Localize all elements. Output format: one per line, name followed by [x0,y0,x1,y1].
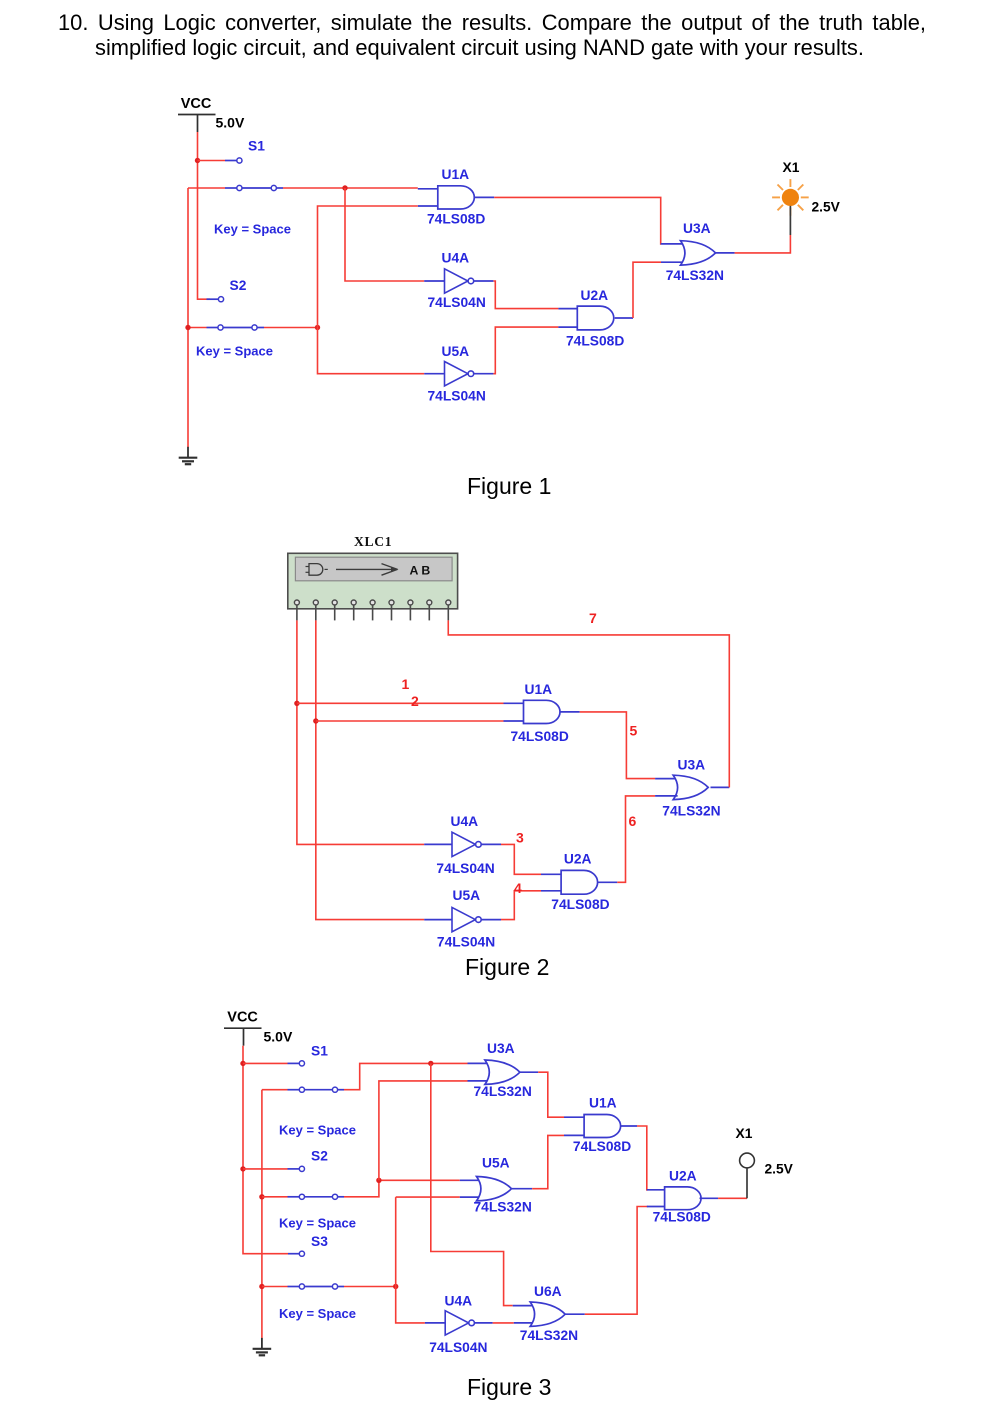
svg-text:2.5V: 2.5V [765,1162,794,1177]
svg-text:Key = Space: Key = Space [279,1306,356,1321]
op U2A AND gate body (figure 3) [665,1187,701,1210]
junction S2 branch (figure 3) [376,1178,381,1183]
svg-text:U1A: U1A [589,1096,617,1111]
svg-text:74LS32N: 74LS32N [474,1200,532,1215]
ground symbol (figure 3) [261,1338,263,1349]
pin U3A input B lead (figure 2) [655,795,678,797]
pin S2 left row lead [207,327,218,329]
ground symbol (figure 1) [187,447,189,458]
svg-text:74LS08D: 74LS08D [511,729,569,744]
pin U2A output [615,317,633,319]
wire U5A output to U1A input B (figure 3) [532,1135,564,1188]
svg-text:Key = Space: Key = Space [279,1216,356,1231]
switch S1 left terminal (figure 3) [299,1087,304,1092]
switch S3 right terminal (figure 3) [332,1284,337,1289]
svg-text:S2: S2 [230,278,247,293]
wire VCC to S1 upper throw (figure 3) [243,1062,288,1064]
pin S1 upper throw lead [225,160,237,162]
wire U5A output to U2A input B [493,327,558,374]
op U3A OR gate body (figure 3) [485,1060,520,1084]
wire S2 to U1A/U5A node [264,327,318,329]
pin U3A output (figure 3) [520,1071,538,1073]
wire S1 branch down to U4A [345,188,424,281]
svg-text:U3A: U3A [683,221,711,236]
svg-text:74LS04N: 74LS04N [436,861,494,876]
op U1A AND gate body (figure 2) [524,700,561,723]
wire ground rail to S3 row (figure 3) [262,1286,288,1288]
svg-text:U2A: U2A [669,1169,697,1184]
op U2A AND gate body [577,306,613,330]
svg-text:5.0V: 5.0V [216,115,245,131]
wire net 3 U4A output to U2A input A [501,844,541,874]
svg-text:74LS08D: 74LS08D [551,897,609,912]
svg-text:U5A: U5A [482,1156,510,1171]
switch S3 upper throw terminal (figure 3) [299,1251,304,1256]
svg-text:74LS08D: 74LS08D [427,212,485,227]
pin U1A input A (figure 2) [504,702,524,704]
pin U5A output (figure 3) [512,1188,533,1190]
junction node S1 branch [342,185,347,190]
probe X1 lamp (unlit, figure 3) [740,1153,755,1168]
svg-text:74LS32N: 74LS32N [662,804,720,819]
switch S2 upper throw terminal [218,297,223,302]
pin U6A output (figure 3) [566,1313,585,1315]
svg-text:5: 5 [630,723,638,739]
svg-text:74LS08D: 74LS08D [566,333,624,348]
switch S3 arm (figure 3) [305,1286,333,1288]
inverter U4A body [445,269,468,293]
svg-text:X1: X1 [783,160,800,175]
pin U2A input A lead (figure 2) [541,873,561,875]
op U5A OR gate body (figure 3) [477,1177,512,1201]
pin U2A output (figure 3) [700,1197,719,1199]
wire U2A output to probe X1 (figure 3) [718,1197,747,1199]
wire S1 to U3A input A (figure 3) [344,1063,468,1089]
wire S3 to node (figure 3) [344,1286,396,1288]
pin S1 output lead [277,187,283,189]
wire ground rail to S1 row [188,187,225,189]
junction VCC to S1 throw (figure 3) [240,1061,245,1066]
pin U2A input A lead (figure 3) [647,1189,665,1191]
pin U4A output (figure 3) [474,1322,492,1324]
svg-text:Figure 3: Figure 3 [467,1374,551,1400]
svg-text:3: 3 [516,830,524,846]
svg-text:6: 6 [629,813,637,829]
svg-text:U1A: U1A [442,167,470,182]
power VCC symbol (figure 1) [178,114,216,116]
switch S1 right terminal (figure 3) [332,1087,337,1092]
wire net 7 U3A output to terminal 9 [448,620,729,787]
svg-text:1: 1 [402,676,410,692]
wire U2A output to U3A input B [633,262,661,318]
svg-text:74LS04N: 74LS04N [429,1340,487,1355]
inverter U4A body (figure 2) [452,832,475,856]
svg-text:S1: S1 [311,1044,328,1059]
pin U2A output (figure 2) [598,881,618,883]
wire ground rail to S1 row (figure 3) [262,1089,288,1091]
junction S2 node [315,325,320,330]
pin U4A input (figure 3) [425,1322,445,1324]
pin U1A output [474,196,494,198]
heading problem statement [58,10,926,60]
svg-text:VCC: VCC [181,96,212,112]
pin U2A input B lead (figure 3) [647,1206,665,1208]
pin S2 upper throw lead (figure 3) [288,1168,300,1170]
wire net 2 to U1A input B [316,720,504,722]
svg-text:2.5V: 2.5V [812,200,841,215]
pin S2 upper throw lead [207,298,219,300]
pin U2A input A lead [558,308,577,310]
op U1A AND gate body [438,186,475,209]
wire VCC to S1 upper throw [198,160,226,162]
pin U4A output [474,280,494,282]
pin U4A input [424,280,444,282]
junction terminal-1 branch [294,701,299,706]
switch S1 arm (figure 3) [305,1089,333,1091]
svg-text:U4A: U4A [445,1294,473,1309]
inverter U4A body (figure 3) [445,1311,468,1335]
switch S1 arm [242,187,271,189]
pin U5A output [474,373,494,375]
pin S2 output lead [257,327,264,329]
switch S2 right terminal (figure 3) [332,1194,337,1199]
pin S1 upper throw lead (figure 3) [288,1062,300,1064]
wire S2 branch to U3A input B (figure 3) [379,1081,468,1180]
pin U6A input A lead (figure 3) [513,1305,535,1307]
wire terminal 2 down [316,620,424,919]
svg-text:S2: S2 [311,1149,328,1164]
wire ground rail [187,188,189,447]
inverter U5A body (figure 2) [452,907,475,931]
junction S3 node (figure 3) [393,1284,398,1289]
svg-text:U5A: U5A [453,888,481,903]
pin U5A output (figure 2) [481,919,501,921]
pin U3A input B lead (figure 3) [468,1080,490,1082]
pin S3 upper throw lead (figure 3) [288,1253,299,1255]
pin U1A output (figure 2) [560,711,580,713]
wire S1 to U1A input A [283,187,418,189]
svg-text:S1: S1 [248,139,265,154]
probe X1 lamp (lit) [772,179,809,235]
instrument XLC1 logic converter [288,553,458,609]
wire terminal 1 down [297,620,424,844]
switch S2 upper throw terminal (figure 3) [299,1166,304,1171]
svg-text:74LS08D: 74LS08D [573,1139,631,1154]
pin U1A input A [418,188,438,190]
op U3A OR gate body [681,241,716,265]
junction ground rail at S2 row (figure 3) [259,1194,264,1199]
pin U1A output (figure 3) [620,1125,637,1127]
svg-text:74LS04N: 74LS04N [428,295,486,310]
wire net 6 U2A output to U3A input B [617,796,655,882]
pin S3 left row lead (figure 3) [288,1286,300,1288]
switch S2 arm (figure 3) [305,1196,333,1198]
junction ground rail at S3 row (figure 3) [259,1284,264,1289]
svg-text:74LS32N: 74LS32N [474,1084,532,1099]
svg-text:U2A: U2A [581,288,609,303]
svg-text:5.0V: 5.0V [264,1029,293,1045]
wire net 4 U5A output to U2A input B [501,891,541,920]
svg-text:XLC1: XLC1 [354,534,392,549]
svg-text:U1A: U1A [525,682,553,697]
svg-text:74LS32N: 74LS32N [666,268,724,283]
wire U4A output to U2A input A [493,281,558,309]
pin S1 left row lead [225,187,237,189]
svg-text:7: 7 [589,610,597,626]
wire ground rail to S2 row [188,327,207,329]
svg-text:U3A: U3A [487,1041,515,1056]
svg-text:U5A: U5A [442,344,470,359]
switch S1 upper throw terminal [237,158,242,163]
svg-text:U4A: U4A [451,814,479,829]
switch S1 upper throw terminal (figure 3) [299,1061,304,1066]
pin U2A input B lead [558,326,577,328]
switch S2 arm [223,327,251,329]
wire U1A output to U2A input A (figure 3) [637,1126,648,1190]
svg-text:A B: A B [410,563,431,577]
pin U1A input B lead (figure 3) [564,1134,584,1136]
pin U6A input B lead (figure 3) [514,1322,535,1324]
svg-text:X1: X1 [736,1126,753,1141]
wire S1 branch to U6A input A (figure 3) [431,1063,513,1305]
pin S2 left row lead (figure 3) [288,1196,300,1198]
svg-text:Key = Space: Key = Space [196,344,273,359]
pin U1A input B (figure 2) [504,720,524,722]
pin S3 output lead (figure 3) [338,1286,344,1288]
pin U4A input (figure 2) [424,843,452,845]
svg-text:74LS08D: 74LS08D [653,1210,711,1225]
svg-text:Figure 1: Figure 1 [467,473,551,499]
pin U4A output (figure 2) [481,843,501,845]
pin U3A input A lead [661,243,685,245]
junction VCC to S1 throw [195,158,200,163]
wire U4A output to U6A input B (figure 3) [493,1322,514,1324]
inverter U5A body [445,362,468,386]
svg-text:74LS32N: 74LS32N [520,1328,578,1343]
pin U5A input (figure 2) [424,919,452,921]
wire net 5 U1A output to U3A input A [580,712,655,779]
wire U3A output to U1A input A (figure 3) [538,1072,564,1117]
switch S3 left terminal (figure 3) [299,1284,304,1289]
wire S2 to U5A input A (figure 3) [344,1180,460,1197]
wire U1A output to U3A input A [494,197,661,244]
svg-text:74LS04N: 74LS04N [437,934,495,949]
pin S2 output lead (figure 3) [338,1196,344,1198]
pin U3A output (figure 2) [711,786,730,788]
pin U2A input B lead (figure 2) [541,890,561,892]
pin U3A input A lead (figure 3) [468,1062,490,1064]
wire S3 vertical (figure 3) [396,1197,425,1323]
junction S1 branch (figure 3) [428,1061,433,1066]
svg-text:S3: S3 [311,1234,328,1249]
wire VCC to S2 upper throw (figure 3) [243,1168,288,1170]
op U2A AND gate body (figure 2) [561,870,598,894]
wire VCC rail (figure 3) [243,1046,288,1254]
wire U6A output to U2A input B (figure 3) [585,1207,648,1315]
wire net 1 to U1A input A [297,702,504,704]
pin S1 output lead (figure 3) [338,1089,344,1091]
switch S2 left terminal [218,325,223,330]
pin U5A input [424,373,444,375]
svg-text:2: 2 [411,693,419,709]
pin U1A input A lead (figure 3) [564,1116,584,1118]
pin U3A input A lead (figure 2) [655,778,678,780]
svg-text:Key = Space: Key = Space [214,222,291,237]
pin U1A input B [418,205,438,207]
op U3A OR gate body (figure 2) [673,775,708,799]
junction VCC to S2 throw (figure 3) [240,1166,245,1171]
pin U5A input A lead (figure 3) [460,1179,481,1181]
wire U1A input B from node [318,206,425,374]
wire ground rail to S2 row (figure 3) [262,1196,288,1198]
pin S1 left row lead (figure 3) [288,1089,300,1091]
pin U3A input B lead [661,261,685,263]
switch S1 left terminal [237,185,242,190]
wire U3A output to probe X1 [735,235,791,253]
wire VCC rail down to S2 upper throw [198,132,211,299]
switch S2 right terminal [252,325,257,330]
wire S3 node to U5A input B (figure 3) [396,1196,460,1198]
svg-text:Key = Space: Key = Space [279,1123,356,1138]
junction ground rail at S2 row [185,325,190,330]
junction terminal-2 branch [313,718,318,723]
pin U3A output [716,252,735,254]
wire ground rail (figure 3) [261,1090,263,1339]
switch S2 left terminal (figure 3) [299,1194,304,1199]
svg-text:U3A: U3A [678,758,706,773]
pin U5A input B lead (figure 3) [460,1196,481,1198]
op U6A OR gate body (figure 3) [530,1302,565,1326]
svg-text:VCC: VCC [227,1010,258,1026]
power VCC symbol (figure 3) [224,1027,262,1029]
svg-text:U2A: U2A [564,851,592,866]
op U1A AND gate body (figure 3) [584,1115,621,1138]
svg-text:U6A: U6A [534,1284,562,1299]
svg-text:74LS04N: 74LS04N [428,389,486,404]
svg-text:U4A: U4A [442,250,470,265]
switch S1 right terminal [271,185,276,190]
svg-text:4: 4 [514,880,522,896]
svg-text:Figure 2: Figure 2 [465,954,549,980]
